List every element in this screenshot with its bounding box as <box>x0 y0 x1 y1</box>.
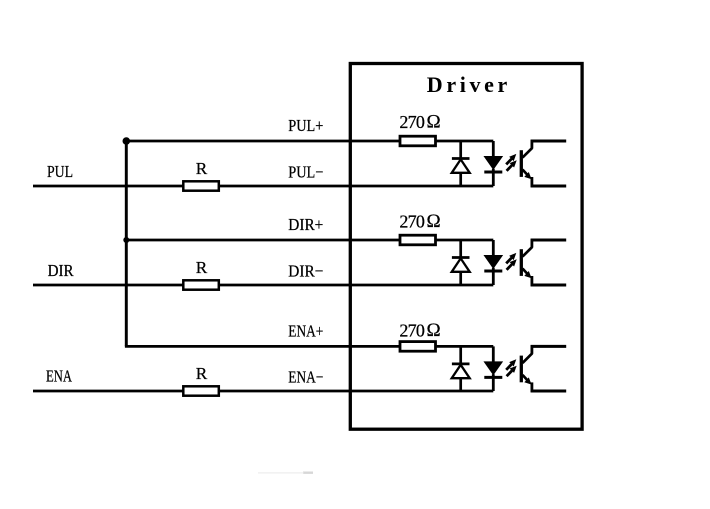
phototransistor (PUL channel) <box>521 140 566 187</box>
diode reverse-protection (PUL channel) <box>452 141 470 186</box>
svg-text:Ω: Ω <box>427 320 441 341</box>
resistor 270ohm (ENA+ internal) <box>400 342 436 352</box>
optocoupler light arrows (DIR channel) <box>506 253 517 270</box>
wire common bus vertical <box>125 141 128 346</box>
svg-text:ENA−: ENA− <box>288 367 323 386</box>
svg-text:Ω: Ω <box>427 211 441 232</box>
svg-text:270: 270 <box>399 212 425 232</box>
wire PUL input / PUL- line <box>33 185 493 188</box>
svg-text:PUL−: PUL− <box>288 162 323 181</box>
optocoupler light arrows (PUL channel) <box>506 154 517 171</box>
svg-text:270: 270 <box>399 320 425 340</box>
svg-text:DIR−: DIR− <box>288 261 323 280</box>
LED optocoupler emitter (DIR channel) <box>484 240 502 285</box>
driver box outline <box>350 64 582 430</box>
phototransistor (ENA channel) <box>521 345 566 392</box>
wire ENA input / ENA- line <box>33 390 493 393</box>
svg-text:DIR: DIR <box>48 261 74 280</box>
resistor R (PUL series) <box>183 181 219 190</box>
svg-text:R: R <box>196 364 208 383</box>
svg-text:PUL+: PUL+ <box>288 116 323 135</box>
svg-text:270: 270 <box>399 112 425 132</box>
LED optocoupler emitter (PUL channel) <box>484 141 502 186</box>
optocoupler light arrows (ENA channel) <box>506 359 517 376</box>
svg-text:ENA+: ENA+ <box>288 321 323 340</box>
phototransistor (DIR channel) <box>521 239 566 286</box>
diode reverse-protection (ENA channel) <box>452 346 470 391</box>
svg-text:DIR+: DIR+ <box>288 215 323 234</box>
node junction dot DIR+/bus <box>123 237 129 243</box>
svg-text:R: R <box>196 159 208 178</box>
LED optocoupler emitter (ENA channel) <box>484 346 502 391</box>
svg-text:PUL: PUL <box>47 162 73 181</box>
wire ENA+ line <box>125 345 493 348</box>
scan artifact smudge <box>258 472 313 474</box>
resistor R (DIR series) <box>183 280 219 289</box>
wire DIR input / DIR- line <box>33 284 493 287</box>
resistor 270ohm (DIR+ internal) <box>400 235 436 245</box>
wire PUL+ line <box>125 140 493 143</box>
wire DIR+ line <box>125 239 493 242</box>
diode reverse-protection (DIR channel) <box>452 240 470 285</box>
svg-text:ENA: ENA <box>46 367 72 386</box>
resistor R (ENA series) <box>183 386 219 395</box>
svg-text:R: R <box>196 258 208 277</box>
node junction dot PUL+/bus <box>123 137 131 145</box>
svg-text:Ω: Ω <box>427 112 441 133</box>
resistor 270ohm (PUL+ internal) <box>400 136 436 146</box>
